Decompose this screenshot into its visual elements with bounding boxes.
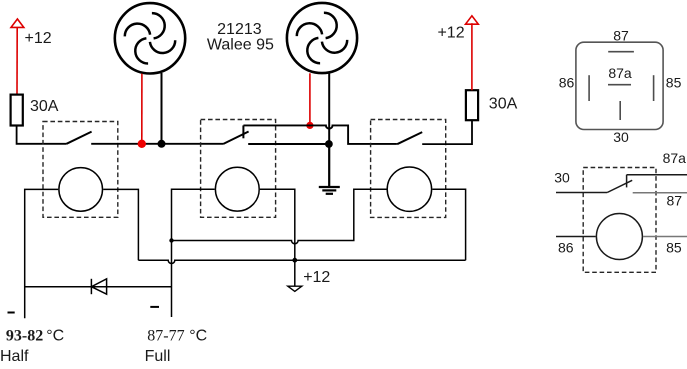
relay internal switch blade — [607, 180, 632, 192]
wire S2 output rail (87a rail with hop and jog down to S3) — [243, 125, 397, 143]
ground symbol — [319, 144, 340, 194]
relay K3 box — [371, 120, 446, 218]
svg-text:87: 87 — [613, 27, 629, 43]
+12 supply arrow A1 (top left) — [11, 19, 24, 95]
wire fan M1 plus (red) — [141, 74, 143, 144]
svg-text:85: 85 — [666, 239, 682, 255]
wire F2 to arrow A2 (red) — [471, 23, 473, 90]
fan M1 — [115, 3, 185, 73]
wire coil K1 left to thermostat Half — [25, 189, 59, 318]
switch S2 NC contact — [242, 125, 244, 138]
wire coil K2 left / thermostat Full vertical — [172, 189, 215, 317]
+12 down arrow A3 — [288, 286, 302, 291]
wire fan M2 minus — [328, 73, 330, 144]
relay internal pin 30 wire — [556, 192, 607, 194]
svg-text:30: 30 — [554, 169, 570, 185]
wire S2 to ground node — [248, 143, 329, 145]
switch S3 blade — [397, 132, 422, 144]
diode D1 — [25, 279, 172, 294]
svg-text:Full: Full — [145, 348, 171, 365]
pin 30 — [619, 101, 621, 120]
wire fan M1 minus — [161, 73, 163, 144]
node black junction J2 — [158, 140, 166, 148]
fan M2 — [287, 3, 357, 73]
coil K1 — [59, 168, 103, 212]
rail B wire (+12 coil feed) — [138, 260, 465, 263]
svg-text:87a: 87a — [608, 65, 632, 81]
relay internal diagram box — [583, 168, 656, 273]
minus terminal Full — [150, 306, 159, 308]
wire coil K2 right to +12 down arrow — [260, 189, 295, 286]
rail A wire (thermostat Full to coil K3 left) — [172, 189, 387, 244]
pin 86 — [588, 75, 590, 101]
fuse F1 — [11, 95, 23, 126]
relay internal 85 wire — [643, 236, 687, 238]
coil K2 — [215, 167, 259, 211]
svg-text:+12: +12 — [437, 25, 464, 42]
relay pinout box — [576, 42, 663, 129]
svg-text:Half: Half — [0, 348, 29, 365]
svg-text:Walee 95: Walee 95 — [207, 37, 274, 54]
wire coil K3 right down to rail B — [432, 189, 465, 260]
svg-text:°C: °C — [46, 327, 64, 344]
svg-text:87: 87 — [667, 193, 683, 209]
switch S1 blade — [67, 132, 92, 144]
node ground junction J4 — [325, 140, 333, 148]
wire F1 to switch S1 — [17, 126, 67, 144]
relay internal 87a wire — [627, 174, 687, 176]
coil K3 — [387, 167, 431, 211]
svg-text:30: 30 — [613, 129, 629, 145]
relay internal coil — [596, 214, 642, 260]
wire S3 to fuse F2 — [422, 120, 472, 144]
node red junction J3 — [306, 122, 313, 129]
pin 87a — [608, 84, 631, 86]
svg-text:85: 85 — [666, 75, 682, 91]
svg-text:86: 86 — [559, 75, 575, 91]
svg-text:°C: °C — [189, 327, 207, 344]
switch S2 blade — [223, 132, 249, 145]
relay K1 box — [43, 122, 118, 218]
pin 87 — [608, 51, 634, 53]
svg-text:87a: 87a — [663, 150, 687, 166]
pin 85 — [653, 75, 655, 101]
+12 supply arrow A2 (top right) — [466, 16, 479, 24]
svg-text:+12: +12 — [25, 30, 52, 47]
svg-text:93-82: 93-82 — [6, 327, 43, 344]
relay internal 86 wire — [556, 236, 596, 238]
wire fan M2 plus (red) — [309, 73, 311, 125]
svg-text:30A: 30A — [30, 98, 59, 115]
fuse F2 — [466, 90, 478, 120]
minus terminal Half — [8, 312, 15, 314]
relay internal NC contact — [626, 175, 628, 188]
svg-text:30A: 30A — [489, 96, 518, 113]
wire coil K1 right down to rail B — [103, 189, 138, 260]
relay internal 87 wire — [633, 192, 687, 194]
relay K2 box — [201, 120, 276, 218]
wire S1 to relay K2 — [91, 143, 223, 145]
node junction J5 — [169, 238, 173, 242]
svg-text:87-77: 87-77 — [147, 327, 184, 344]
node junction J6 — [292, 258, 297, 263]
svg-text:86: 86 — [558, 239, 574, 255]
svg-text:+12: +12 — [303, 269, 330, 286]
node red junction J1 — [138, 140, 146, 148]
